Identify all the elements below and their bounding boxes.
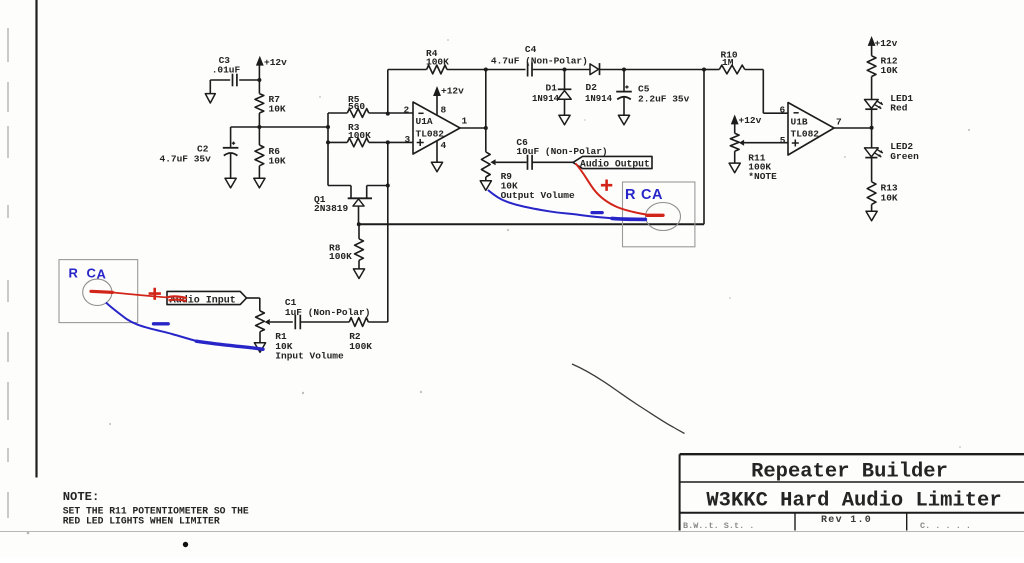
svg-text:C: C [87, 266, 97, 281]
svg-text:10K: 10K [269, 103, 286, 114]
svg-text:Input Volume: Input Volume [275, 350, 344, 361]
svg-text:+12v: +12v [739, 115, 762, 126]
svg-text:C. . . . .: C. . . . . [920, 521, 971, 531]
svg-text:TL082: TL082 [791, 129, 820, 140]
svg-text:*NOTE: *NOTE [748, 171, 777, 182]
svg-text:1uF (Non-Polar): 1uF (Non-Polar) [285, 307, 371, 318]
svg-text:Red: Red [890, 102, 907, 113]
svg-text:U1B: U1B [791, 117, 808, 128]
svg-text:R: R [69, 266, 79, 281]
svg-text:3: 3 [405, 134, 411, 145]
svg-text:W3KKC Hard Audio Limiter: W3KKC Hard Audio Limiter [706, 489, 1001, 512]
svg-text:100K: 100K [329, 251, 352, 262]
svg-text:2.2uF 35v: 2.2uF 35v [638, 94, 690, 105]
svg-text:Output Volume: Output Volume [501, 190, 575, 201]
svg-text:A: A [652, 187, 663, 203]
svg-text:Green: Green [890, 151, 919, 162]
svg-text:Rev 1.0: Rev 1.0 [821, 515, 872, 526]
svg-text:C: C [641, 187, 652, 203]
svg-text:Repeater Builder: Repeater Builder [751, 461, 948, 484]
svg-text:8: 8 [441, 105, 447, 116]
svg-text:10K: 10K [881, 65, 898, 76]
svg-text:10K: 10K [269, 156, 286, 167]
svg-text:560: 560 [348, 101, 365, 112]
svg-text:+12v: +12v [441, 86, 464, 97]
svg-text:+12v: +12v [875, 38, 898, 49]
svg-text:100K: 100K [348, 130, 371, 141]
svg-text:RED LED LIGHTS WHEN LIMITER: RED LED LIGHTS WHEN LIMITER [63, 515, 220, 526]
svg-text:2N3819: 2N3819 [314, 203, 349, 214]
svg-text:100K: 100K [349, 341, 372, 352]
svg-text:B.W..t. S.t. .: B.W..t. S.t. . [683, 521, 754, 531]
svg-text:6: 6 [780, 105, 786, 116]
svg-text:1: 1 [462, 116, 468, 127]
svg-text:D1: D1 [546, 82, 558, 93]
svg-text:D2: D2 [586, 82, 598, 93]
svg-text:.01uF: .01uF [212, 65, 241, 76]
svg-text:5: 5 [780, 135, 786, 146]
svg-text:Audio Output: Audio Output [580, 158, 650, 169]
svg-text:10uF (Non-Polar): 10uF (Non-Polar) [516, 146, 607, 157]
svg-text:TL082: TL082 [416, 128, 445, 139]
svg-text:R: R [625, 187, 636, 203]
svg-text:4: 4 [441, 140, 447, 151]
svg-text:1N914: 1N914 [585, 94, 613, 104]
svg-text:4.7uF 35v: 4.7uF 35v [160, 154, 212, 165]
svg-text:10K: 10K [881, 192, 898, 203]
svg-text:C4: C4 [525, 44, 537, 55]
svg-text:U1A: U1A [416, 116, 433, 127]
svg-text:100K: 100K [426, 57, 449, 68]
svg-text:NOTE:: NOTE: [63, 490, 100, 504]
svg-text:+12v: +12v [264, 57, 287, 68]
svg-text:7: 7 [836, 117, 842, 128]
svg-text:1N914: 1N914 [532, 94, 560, 104]
svg-text:2: 2 [404, 105, 410, 116]
svg-text:A: A [97, 267, 107, 282]
svg-text:4.7uF (Non-Polar): 4.7uF (Non-Polar) [491, 56, 588, 67]
svg-text:1M: 1M [722, 57, 734, 68]
